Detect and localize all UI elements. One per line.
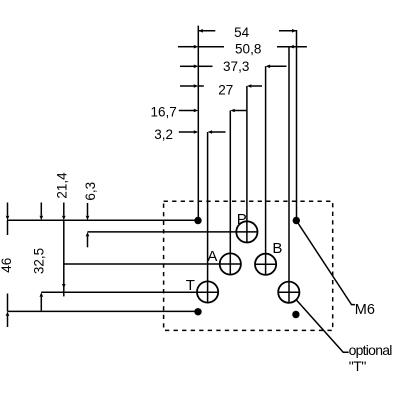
svg-text:16,7: 16,7 (150, 105, 176, 120)
svg-text:21,4: 21,4 (54, 172, 69, 199)
svg-text:B: B (272, 240, 282, 257)
svg-text:37,3: 37,3 (223, 59, 249, 74)
svg-text:P: P (237, 211, 247, 228)
svg-text:"T": "T" (349, 358, 367, 374)
svg-text:3,2: 3,2 (154, 127, 173, 142)
svg-text:54: 54 (234, 25, 250, 40)
svg-text:T: T (186, 277, 195, 294)
svg-text:46: 46 (0, 258, 14, 273)
svg-text:6,3: 6,3 (83, 182, 98, 201)
svg-text:M6: M6 (355, 302, 375, 318)
svg-text:50,8: 50,8 (235, 42, 261, 57)
svg-text:32,5: 32,5 (32, 248, 47, 274)
svg-text:27: 27 (218, 82, 233, 97)
svg-text:A: A (207, 248, 217, 265)
svg-text:optional: optional (349, 342, 393, 358)
